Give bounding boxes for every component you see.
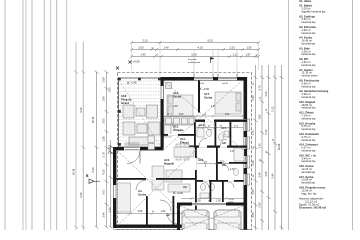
svg-text:+0.50: +0.50: [203, 87, 210, 91]
room A8 wall: [216, 146, 218, 180]
svg-text:Összesen: 142,48 m2: Összesen: 142,48 m2: [299, 206, 327, 210]
svg-text:1.90: 1.90: [102, 96, 106, 102]
right wall window 3: [244, 156, 250, 168]
svg-text:2.20: 2.20: [229, 46, 235, 50]
A3 door arcs: [160, 200, 171, 211]
svg-text:1.40: 1.40: [108, 153, 113, 155]
interior dim row bath cluster: [196, 126, 243, 129]
pergola level marker -0.48: [127, 81, 137, 85]
svg-text:4.10: 4.10: [197, 46, 203, 50]
svg-text:kerámia lap: kerámia lap: [302, 95, 316, 99]
svg-text:2.25: 2.25: [251, 160, 255, 166]
svg-text:kerámia lap: kerámia lap: [302, 159, 316, 163]
svg-text:3.00: 3.00: [220, 162, 225, 164]
living room label A10 Nappali: [158, 158, 174, 173]
svg-text:9.20: 9.20: [207, 39, 213, 43]
roof diagonal garage 2: [180, 206, 243, 230]
svg-text:4.75: 4.75: [258, 85, 262, 91]
left dimension chain ticks on line 9: [74, 71, 85, 229]
bedroom south wall: [161, 120, 248, 122]
pergola posts: [118, 78, 161, 146]
svg-text:simított beton: simított beton: [302, 74, 319, 78]
site boundary line 1: [4, 0, 6, 230]
site boundary line 7: [56, 0, 58, 230]
svg-text:4.50: 4.50: [225, 114, 230, 116]
svg-text:3.60: 3.60: [179, 114, 184, 116]
svg-text:1.50: 1.50: [196, 200, 201, 203]
roof diagonal pergola: [119, 80, 160, 146]
svg-text:2.05: 2.05: [102, 118, 106, 124]
svg-text:1.12: 1.12: [232, 53, 238, 57]
wall between A5 A6: [197, 180, 244, 182]
legend entries: [299, 4, 329, 196]
svg-text:5.07: 5.07: [102, 189, 106, 195]
front wall with entrance: [113, 147, 164, 150]
bath door arcs: [172, 122, 229, 171]
site boundary line 2: [22, 0, 24, 230]
svg-text:kerámia lap: kerámia lap: [302, 138, 316, 142]
svg-text:4.22: 4.22: [102, 169, 106, 175]
bath label A8: [222, 141, 235, 153]
interior dim row below bedrooms: [163, 115, 244, 118]
svg-text:fagyálló kerámia lap: fagyálló kerámia lap: [302, 9, 326, 13]
hallway wall A2/A3: [146, 196, 148, 226]
left dim text column B: [102, 77, 112, 218]
svg-text:5.12: 5.12: [271, 106, 275, 112]
room label A16: [173, 91, 182, 108]
svg-text:kerámia lap: kerámia lap: [302, 31, 316, 35]
hall label A13: [198, 158, 204, 162]
main top exterior wall: [161, 77, 248, 81]
site boundary line 9: [75, 42, 77, 230]
level marker 0.00 hall: [173, 191, 184, 195]
section marker B left: [86, 174, 100, 183]
svg-text:fagy. ker. lap: fagy. ker. lap: [302, 191, 318, 195]
svg-text:3.40: 3.40: [102, 212, 106, 218]
legend summary: [299, 197, 327, 210]
svg-text:9.20: 9.20: [91, 167, 95, 173]
svg-text:kerámia lap: kerámia lap: [302, 52, 316, 56]
svg-text:2.78: 2.78: [102, 152, 106, 158]
right dim rotated numbers: [251, 82, 281, 218]
room label A17: [204, 92, 216, 108]
bedroom divider wall A16/A17: [198, 81, 200, 113]
south exterior wall: [113, 225, 188, 228]
survey text near flag: [188, 58, 201, 64]
roof diagonal garage 1: [180, 206, 243, 230]
right wall window 2: [244, 137, 250, 149]
svg-text:laminált lap: laminált lap: [302, 181, 316, 185]
site boundary line 6: [50, 0, 52, 230]
car 2: [214, 210, 241, 232]
svg-text:1.30: 1.30: [258, 143, 262, 149]
bottom thin line below wall: [113, 228, 251, 230]
A6 wall: [216, 162, 247, 164]
dining table: [174, 144, 194, 160]
site boundary line 3: [25, 0, 27, 230]
A6 door arc2: [228, 182, 234, 188]
right dim chain 5: [280, 65, 284, 230]
svg-text:2.00: 2.00: [138, 46, 144, 50]
wall A2 A3 divider: [173, 196, 175, 226]
top dimension row 3: [130, 55, 260, 58]
svg-text:kerámia lap: kerámia lap: [302, 116, 316, 120]
svg-text:18.16: 18.16: [91, 116, 95, 123]
garage dims: [196, 199, 234, 204]
A5 door arc: [203, 182, 209, 188]
window labels top: [198, 83, 229, 85]
entrance steps: [125, 143, 140, 145]
label A6: [222, 163, 235, 171]
dim extension lines top: [132, 43, 259, 77]
left dimension chain line A: [95, 71, 99, 229]
far right border line: [352, 0, 354, 230]
top left cross marker: [116, 67, 119, 70]
entrance door arc: [127, 151, 140, 164]
garage top wall: [177, 203, 247, 206]
sofa set A10: [152, 166, 190, 192]
svg-text:Szoba: Szoba: [204, 96, 213, 100]
left dim text column A: [91, 116, 95, 172]
right wall window 4: [244, 174, 250, 185]
left dimension chain line C: [109, 140, 113, 229]
interior dim line hall: [197, 162, 243, 165]
kitchen counter A12: [164, 117, 195, 126]
tick marks above top wall windows: [194, 74, 237, 78]
svg-text:+0.00: +0.00: [177, 191, 184, 195]
svg-text:2.10: 2.10: [142, 39, 148, 43]
front wall dim labels: [108, 147, 113, 156]
svg-text:16.26: 16.26: [277, 143, 281, 150]
top dimension row 1: [130, 41, 260, 44]
svg-text:-0.02: -0.02: [228, 202, 234, 204]
svg-text:5.12: 5.12: [264, 129, 268, 135]
svg-text:3.45: 3.45: [264, 171, 268, 177]
svg-text:1.08: 1.08: [102, 77, 106, 83]
pergola furniture set: [123, 105, 160, 145]
roof diagonal B: [163, 80, 243, 150]
svg-text:1.50: 1.50: [251, 189, 255, 195]
svg-text:1.50: 1.50: [216, 200, 221, 203]
svg-text:1.50: 1.50: [246, 46, 252, 50]
right dim chain 2: [260, 65, 264, 230]
right exterior wall: [244, 77, 248, 230]
svg-text:3.20: 3.20: [264, 91, 268, 97]
level marker +0.00 top left: [129, 60, 141, 64]
svg-text:3.86: 3.86: [138, 210, 143, 213]
dining area wall: [162, 134, 196, 136]
svg-text:1.87: 1.87: [245, 53, 251, 57]
svg-text:laminált lap: laminált lap: [302, 170, 316, 174]
svg-text:1.40: 1.40: [163, 46, 169, 50]
svg-text:kerámia lap: kerámia lap: [302, 63, 316, 67]
toilet A6: [233, 169, 238, 176]
bed A17: [215, 92, 241, 114]
svg-text:1.36: 1.36: [102, 136, 106, 142]
left dimension chain line B: [105, 71, 109, 229]
pergola hatch area A18: [118, 81, 160, 144]
svg-text:+0.00: +0.00: [133, 60, 141, 64]
svg-text:melléképület: melléképület: [188, 61, 201, 64]
flag symbol: [211, 57, 215, 63]
svg-text:18.16: 18.16: [72, 168, 76, 175]
car 1: [182, 210, 209, 232]
svg-text:5.40: 5.40: [79, 192, 83, 198]
svg-text:1.75: 1.75: [251, 130, 255, 136]
bath fixtures A14 A15: [197, 128, 229, 140]
right wall window 1: [244, 119, 250, 131]
svg-text:3.60: 3.60: [173, 105, 178, 108]
wall A5 divider: [210, 180, 212, 202]
svg-text:2.40: 2.40: [258, 172, 262, 178]
roof diagonal C: [117, 150, 196, 226]
svg-text:terasz: terasz: [121, 101, 130, 105]
svg-text:5.90: 5.90: [251, 95, 255, 101]
right dim chain 4: [273, 65, 277, 230]
pergola door gap: [161, 86, 164, 99]
svg-text:-0.48: -0.48: [131, 81, 137, 85]
bed A16: [167, 95, 193, 116]
site boundary line 4: [31, 0, 33, 230]
right dim chain 1: [254, 65, 258, 230]
bath A14 walls: [194, 122, 196, 147]
west wall of interior (pergola side): [161, 77, 164, 122]
svg-text:2.35: 2.35: [258, 202, 262, 208]
svg-text:kerámia lap: kerámia lap: [302, 127, 316, 131]
svg-text:Nappali: Nappali: [164, 162, 174, 166]
site boundary line 8: [66, 0, 68, 230]
kitchen west counter: [164, 125, 171, 137]
right dim chain 3: [267, 65, 271, 230]
central vertical wall: [195, 148, 197, 229]
interior dim line A4: [117, 212, 196, 215]
top dimension row 2: [130, 48, 260, 51]
svg-text:5.45: 5.45: [271, 173, 275, 179]
svg-text:Szoba: Szoba: [138, 193, 147, 197]
svg-text:9.20: 9.20: [79, 107, 83, 113]
svg-text:1.40: 1.40: [140, 53, 146, 57]
window top 1: [194, 77, 213, 81]
svg-text:kerámia lap: kerámia lap: [302, 20, 316, 24]
west wall window: [113, 185, 116, 198]
window top 2: [218, 77, 237, 81]
svg-text:kerámia lap: kerámia lap: [302, 149, 316, 153]
roof overhang dashed outline: [118, 73, 252, 231]
svg-text:2.95: 2.95: [251, 212, 255, 218]
bath tub A8: [234, 148, 244, 161]
pergola boundary: [119, 78, 162, 147]
corner cabinet A16: [166, 83, 172, 89]
svg-text:pió 90: pió 90: [222, 83, 229, 85]
room label A12 Konyha: [173, 125, 184, 133]
svg-text:kerámia lap: kerámia lap: [302, 84, 316, 88]
svg-text:A13.: A13.: [198, 158, 204, 162]
svg-text:tervezett: tervezett: [188, 58, 197, 61]
west exterior wall: [113, 147, 116, 228]
A4 door arc: [136, 180, 146, 190]
interior dims row A4: [138, 210, 166, 213]
svg-text:kerámia lap: kerámia lap: [302, 106, 316, 110]
west wall kitchen segment: [161, 122, 164, 148]
room label A18 Pergola terasz: [121, 94, 132, 105]
svg-text:A1. lakás: A1. lakás: [299, 0, 312, 3]
interior dim row garage top: [181, 197, 243, 200]
roof diagonal D: [117, 150, 196, 226]
site boundary line 5: [43, 0, 45, 230]
roof diagonal A: [163, 80, 243, 150]
left dim text far columns: [72, 107, 83, 198]
svg-text:A8.: A8.: [222, 141, 227, 145]
svg-text:5.30: 5.30: [191, 53, 197, 57]
svg-text:1.05: 1.05: [108, 87, 112, 93]
svg-text:laminált lap: laminált lap: [302, 42, 316, 46]
garage left wall: [177, 203, 180, 231]
bath A5 A6 bottom fixtures: [200, 184, 215, 198]
level marker +0.50 A17: [199, 87, 210, 91]
extra fixtures laundry: [148, 136, 155, 150]
wardrobe A4: [118, 183, 131, 212]
svg-text:1.80: 1.80: [258, 114, 262, 120]
label A11 Étkező: [180, 137, 190, 151]
site boundary line 10: [82, 42, 84, 230]
interior wall A4 top: [116, 178, 196, 180]
svg-text:1.40: 1.40: [108, 147, 113, 149]
room label A4 Szoba: [138, 189, 147, 197]
right boundary grey line: [288, 0, 290, 230]
svg-text:1.10: 1.10: [108, 207, 112, 213]
svg-text:A2.: A2.: [166, 213, 171, 217]
svg-text:A3.: A3.: [183, 185, 188, 189]
